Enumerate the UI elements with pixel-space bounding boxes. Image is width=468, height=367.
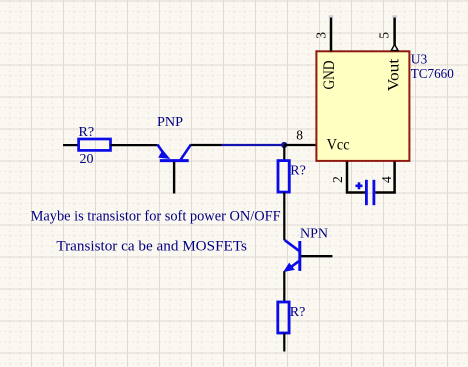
svg-text:4: 4 — [379, 176, 394, 183]
annotation text line 2 — [56, 239, 247, 255]
svg-text:5: 5 — [377, 32, 392, 39]
wire: pin 8 lead into IC — [284, 144, 317, 146]
svg-text:8: 8 — [296, 127, 303, 142]
part name TC7660 — [411, 66, 454, 81]
wire: node down to resistor R2 — [283, 146, 285, 161]
pin number 5 — [377, 32, 392, 39]
wire: NPN emitter down to resistor R3 — [283, 271, 285, 302]
svg-text:2: 2 — [330, 176, 345, 183]
svg-text:Maybe is transistor for soft p: Maybe is transistor for soft power ON/OF… — [31, 209, 281, 225]
svg-text:PNP: PNP — [157, 115, 183, 130]
pin number 2 — [330, 176, 345, 183]
junction node at pin 8 — [281, 142, 287, 148]
label PNP — [157, 115, 183, 130]
wire: blue net segment to node — [222, 144, 285, 146]
pin number 8 — [296, 127, 303, 142]
wire: resistor R1 to PNP emitter — [111, 144, 158, 146]
svg-text:R?: R? — [290, 305, 306, 320]
annotation text line 1 — [31, 209, 281, 225]
value 20 of resistor R1 — [80, 152, 94, 167]
svg-text:NPN: NPN — [300, 226, 328, 241]
pin name Vout — [386, 58, 403, 91]
resistor R2 body — [278, 161, 289, 193]
transistor Q2 NPN: emitter arrow — [283, 263, 295, 272]
transistor Q2 NPN: collector diagonal — [285, 240, 299, 251]
pin name Vcc — [327, 136, 350, 153]
svg-text:20: 20 — [80, 152, 94, 167]
wire: resistor R2 to NPN collector — [283, 192, 285, 240]
wire: left lead into resistor R1 — [63, 144, 79, 146]
pin 5 wire (Vout) — [392, 15, 397, 45]
transistor Q1 PNP: emitter arrow — [158, 150, 170, 159]
IC U3 TC7660 body — [316, 51, 409, 161]
transistor Q1 PNP: emitter diagonal — [158, 145, 167, 158]
pin number 4 — [379, 176, 394, 183]
svg-text:Vcc: Vcc — [327, 136, 350, 153]
capacitor C1 plates — [366, 180, 374, 205]
transistor Q1 PNP: collector diagonal — [181, 145, 191, 160]
capacitor C1 plus sign — [356, 182, 363, 189]
transistor Q1 PNP: base bar — [160, 159, 189, 162]
svg-text:3: 3 — [314, 32, 329, 39]
wire: PNP collector lead — [191, 144, 222, 146]
label R? of resistor R2 — [290, 164, 306, 179]
resistor R1 body — [79, 139, 111, 150]
transistor Q2 NPN: base bar — [298, 241, 301, 271]
svg-text:Transistor ca be and MOSFETs: Transistor ca be and MOSFETs — [56, 239, 247, 255]
svg-text:GND: GND — [321, 61, 338, 90]
pin 3 wire (GND) — [329, 15, 334, 51]
transistor Q2 NPN: base lead right — [301, 255, 332, 257]
pin name GND — [321, 61, 338, 90]
label R? of resistor R3 — [290, 305, 306, 320]
svg-text:TC7660: TC7660 — [411, 66, 454, 81]
wire: below resistor R3 — [283, 333, 285, 352]
label R? of resistor R1 — [79, 125, 95, 140]
svg-text:R?: R? — [290, 164, 306, 179]
svg-text:Vout: Vout — [386, 58, 403, 91]
pin number 3 — [314, 32, 329, 39]
svg-text:R?: R? — [79, 125, 95, 140]
pin 5 analog triangle marker — [391, 44, 398, 50]
designator U3 — [411, 51, 428, 66]
pin 4 wire — [375, 162, 394, 193]
resistor R3 body — [278, 302, 289, 333]
pin 2 wire — [347, 162, 365, 193]
label NPN — [300, 226, 328, 241]
transistor Q2 NPN: emitter diagonal — [287, 261, 299, 270]
transistor Q1 PNP: base lead down — [173, 162, 175, 194]
svg-text:U3: U3 — [411, 51, 428, 66]
